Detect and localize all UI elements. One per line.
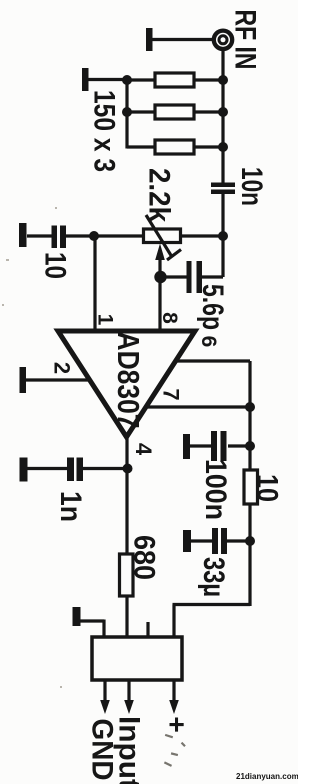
capacitor C4 100n xyxy=(190,431,250,461)
capacitor C2 10 xyxy=(52,226,95,249)
capacitor C3 5.6p xyxy=(160,238,223,293)
op-amp U1 AD8307 xyxy=(58,331,195,437)
arrow Input xyxy=(124,680,134,714)
label Input xyxy=(113,716,146,784)
svg-text:2.2k: 2.2k xyxy=(143,168,176,222)
wire G8 to box xyxy=(80,620,104,638)
wire rail pins to R4 xyxy=(248,407,251,470)
pin label 7 xyxy=(159,388,184,400)
arrow GND xyxy=(100,680,110,714)
svg-text:150 x 3: 150 x 3 xyxy=(88,90,121,172)
ground G1 near RF IN xyxy=(146,28,153,51)
label 5.6p xyxy=(196,284,229,330)
wire pin7 xyxy=(146,405,250,408)
svg-text:10n: 10n xyxy=(235,167,268,206)
wire pin6 xyxy=(175,361,250,407)
label RF IN xyxy=(229,10,262,70)
label 2.2k xyxy=(143,168,176,222)
ground G4 pin2 xyxy=(20,367,27,393)
label 5 faint xyxy=(164,734,186,767)
wire rail R4 down xyxy=(248,504,251,606)
wiper arrow of P1 xyxy=(155,244,165,278)
svg-text:1: 1 xyxy=(94,314,117,326)
stub pin on box xyxy=(146,622,149,637)
junction dot pins 6-7 xyxy=(245,402,255,412)
ground G8 near box xyxy=(73,607,81,626)
junction dot C4 xyxy=(245,441,255,451)
trimmer P1 2.2k xyxy=(144,215,224,260)
capacitor C6 1n xyxy=(27,458,127,482)
wire +5 rail corner xyxy=(173,605,251,638)
svg-text:21dianyuan.com: 21dianyuan.com xyxy=(236,772,298,781)
svg-text:AD8307: AD8307 xyxy=(111,332,146,429)
resistor R4 10 xyxy=(244,470,258,504)
wire left rail xyxy=(125,79,128,149)
junction dot right rail R2 xyxy=(218,107,228,117)
arrow +5 xyxy=(169,680,179,714)
junction dot wiper node xyxy=(154,271,166,283)
junction dot pin4 xyxy=(123,464,133,474)
label 100n xyxy=(199,459,232,520)
ground G2 near 150x3 xyxy=(82,68,89,91)
label 1n xyxy=(54,491,87,522)
wire G2 stub xyxy=(88,78,127,81)
junction dot right rail R1 xyxy=(218,75,228,85)
junction dot left rail R2 xyxy=(122,107,132,117)
junction dot right rail R3 xyxy=(218,142,228,152)
scan specks xyxy=(2,207,62,688)
svg-text:+: + xyxy=(162,716,193,732)
svg-text:100n: 100n xyxy=(199,459,232,520)
svg-text:RF IN: RF IN xyxy=(229,10,262,70)
resistor R5 680 xyxy=(120,554,134,596)
ground G6 near C4 xyxy=(183,434,190,459)
resistor R3 150 xyxy=(127,140,223,154)
label +5 xyxy=(162,716,193,732)
wire node to trimmer left xyxy=(94,234,144,237)
svg-text:10: 10 xyxy=(251,474,284,502)
svg-text:7: 7 xyxy=(159,388,184,400)
capacitor C1 10n xyxy=(211,183,235,195)
junction dot node pin1 xyxy=(89,231,99,241)
wire pin2 xyxy=(26,378,88,381)
wire pin1 xyxy=(93,236,96,331)
pin label 4 xyxy=(131,443,156,456)
junction dot left rail R1 xyxy=(122,75,132,85)
ground G7 near C5 xyxy=(183,530,191,552)
wire pin4 xyxy=(125,437,128,554)
svg-text:1n: 1n xyxy=(54,491,87,522)
svg-text:Input: Input xyxy=(113,716,146,784)
connector J1 RF IN xyxy=(214,31,232,49)
ground G5 near C6 xyxy=(20,458,28,482)
svg-text:33µ: 33µ xyxy=(197,557,230,597)
connector box xyxy=(92,637,182,680)
wire G3 stub xyxy=(27,234,52,237)
svg-text:5.6p: 5.6p xyxy=(196,284,229,330)
label 10n xyxy=(235,167,268,206)
label 150 x 3 xyxy=(88,90,121,172)
label AD8307 xyxy=(111,332,146,429)
wire J1 down right rail xyxy=(221,49,224,183)
label 10 xyxy=(39,252,72,279)
resistor R2 150 xyxy=(127,105,223,119)
pin label 8 xyxy=(158,312,181,324)
wire wiper node to pin8 xyxy=(158,275,161,331)
pin label 1 xyxy=(94,314,117,326)
label 680 xyxy=(128,535,161,580)
svg-text:8: 8 xyxy=(158,312,181,324)
junction dot C5 xyxy=(245,536,255,546)
wire R5 to box xyxy=(125,596,128,637)
ground G3 near C2 xyxy=(19,223,27,247)
label 10 R4 xyxy=(251,474,284,502)
wire G1 to J1 xyxy=(152,38,213,41)
capacitor C5 33u xyxy=(191,528,250,554)
svg-text:6: 6 xyxy=(197,336,220,348)
label 33u xyxy=(197,557,230,597)
junction dot trimmer right xyxy=(218,231,228,241)
pin label 6 xyxy=(197,336,220,348)
pin label 2 xyxy=(50,362,75,374)
svg-text:4: 4 xyxy=(131,443,156,456)
svg-text:2: 2 xyxy=(50,362,75,374)
svg-text:680: 680 xyxy=(128,535,161,580)
label GND xyxy=(86,719,119,781)
resistor R1 150 xyxy=(127,73,223,87)
wire C1 to trimmer node xyxy=(221,194,224,237)
svg-text:10: 10 xyxy=(39,252,72,279)
